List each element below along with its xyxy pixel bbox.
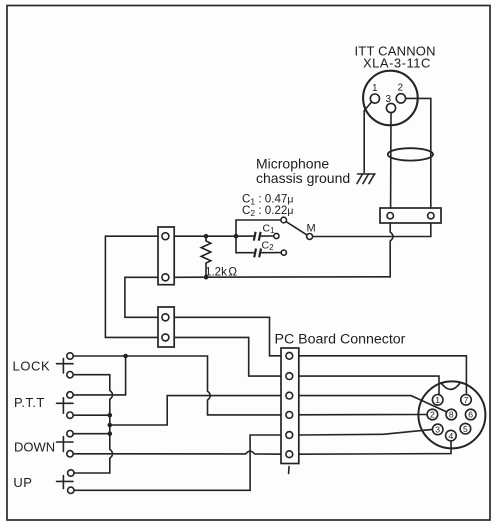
svg-text:3: 3	[435, 425, 440, 435]
wire PC pin5 to DIN pin3	[299, 429, 433, 435]
pin 3 of J1	[386, 94, 396, 113]
selector contact circle (direct position)	[281, 217, 287, 223]
capacitor C1	[236, 232, 274, 241]
chassis connector block	[380, 208, 441, 223]
wire upper block top left loop down to lower block bottom	[105, 236, 158, 337]
junction node at capacitor branch	[234, 234, 239, 239]
upper cord connector block	[158, 227, 174, 285]
PC board connector block	[281, 348, 299, 464]
lower block top pin	[162, 314, 169, 321]
junction node LOCK top / PTT top	[123, 354, 128, 359]
switch DOWN	[57, 431, 74, 457]
lower block bottom pin	[162, 334, 169, 341]
upper block top pin	[162, 233, 169, 240]
wire PC pin3 to DIN pin8	[299, 396, 447, 412]
junction node at resistor bottom	[204, 275, 209, 280]
svg-text:1: 1	[435, 395, 440, 405]
connector J1 XLR body	[363, 71, 418, 126]
DIN keying notch	[441, 382, 461, 389]
DIN pin 3	[432, 424, 443, 435]
PC pin 4	[286, 412, 293, 419]
svg-text:8: 8	[449, 410, 454, 420]
capacitor values label	[242, 193, 293, 218]
wire pin3 down to chassis plug	[390, 113, 392, 208]
chassis block right pin	[428, 213, 434, 219]
DIN pin 2	[427, 409, 438, 420]
wire node up to selector contact	[236, 220, 281, 236]
PC pin 2	[286, 373, 293, 380]
wire upper block bottom pin right	[174, 276, 203, 278]
index tick below PC block	[288, 467, 290, 474]
svg-text:5: 5	[463, 424, 468, 434]
svg-text:3: 3	[386, 94, 392, 105]
wire chassis left pin down (hop over M wire) then left to resistor row	[206, 223, 393, 277]
lower cord connector block	[158, 307, 174, 347]
svg-text:1.2kΩ: 1.2kΩ	[205, 266, 237, 279]
switch M pole circle	[307, 234, 313, 240]
svg-text:chassis ground: chassis ground	[256, 170, 350, 186]
switch PTT	[57, 392, 74, 419]
junction node common branch	[108, 423, 113, 428]
switch M arm	[286, 222, 307, 235]
pin 2 of J1	[396, 83, 405, 104]
svg-text:4: 4	[449, 431, 454, 441]
DIN pin 8	[446, 409, 457, 420]
common vertical (hops over PTT-top and DOWN-bottom rows)	[110, 375, 113, 473]
svg-text:2: 2	[398, 83, 404, 94]
selector contact circle C2	[281, 250, 286, 255]
wire DOWN bottom to PC pin6 (hop over UP vertical)	[73, 451, 281, 454]
svg-text:C2 : 0.22μ: C2 : 0.22μ	[242, 204, 293, 218]
chassis block left pin	[387, 213, 393, 219]
pin 1 of J1	[370, 83, 379, 103]
wire PC pin1 to DIN pin7	[299, 356, 467, 395]
DIN pin 7	[461, 395, 472, 406]
svg-text:UP: UP	[13, 475, 32, 490]
wire common branch to PC pin3	[110, 396, 281, 425]
wire LOCK bottom to common vertical	[73, 374, 110, 376]
wire LOCK top to PC pin4 (down at right, hop over pin3 row)	[73, 356, 281, 415]
upper block bottom pin	[162, 274, 169, 281]
wire upper block bottom left loop down to lower block top	[125, 277, 158, 317]
DIN connector body	[418, 381, 485, 448]
svg-text:1: 1	[372, 83, 378, 94]
junction node DOWN top	[108, 431, 113, 436]
label Microphone chassis ground	[256, 156, 350, 187]
svg-text:6: 6	[468, 410, 473, 420]
wire PTT top contact	[73, 394, 125, 396]
DIN pin 5	[460, 423, 471, 434]
capacitor C2	[236, 236, 281, 257]
microphone chassis ground symbol	[357, 174, 375, 184]
wire lower block bottom pin to PC pin2	[174, 337, 281, 376]
resistor R 1.2k ohm	[201, 239, 211, 276]
PC pin 6	[286, 451, 293, 458]
plug barrel ellipse	[388, 148, 433, 160]
wire UP top contact to common vertical	[74, 472, 110, 474]
junction node at resistor top	[204, 234, 209, 239]
svg-text:XLA-3-11C: XLA-3-11C	[363, 56, 431, 71]
wire PTT bottom contact	[73, 414, 110, 416]
junction node PTT bottom	[108, 413, 113, 418]
switch UP	[57, 470, 75, 494]
svg-text:PC Board Connector: PC Board Connector	[275, 332, 406, 348]
svg-text:DOWN: DOWN	[14, 440, 55, 455]
svg-text:M: M	[307, 223, 316, 235]
wire PC pin4 to DIN pin2	[299, 414, 427, 416]
PC pin 1	[286, 352, 293, 359]
PC pin 5	[286, 432, 293, 439]
wire DOWN top contact	[73, 433, 110, 435]
PC pin 3	[286, 392, 293, 399]
wire pin2 right and down to chassis plug	[406, 98, 431, 208]
svg-text:2: 2	[430, 410, 435, 420]
wire UP bottom to PC pin5	[74, 435, 281, 490]
wire PC pin2 to DIN pin1	[299, 376, 439, 395]
selector contact circle C1	[274, 233, 279, 238]
DIN pin 6	[465, 409, 476, 420]
svg-text:P.T.T: P.T.T	[14, 395, 45, 410]
svg-text:7: 7	[464, 395, 469, 405]
switch LOCK	[57, 353, 74, 378]
wire upper block top pin right to node	[174, 235, 236, 237]
label ITT CANNON XLA-3-11C	[355, 44, 436, 71]
wire junction down to PTT top row	[125, 356, 127, 395]
wire pin1 to chassis ground	[364, 102, 371, 173]
wire lower block top pin to PC pin1	[174, 317, 281, 356]
wire switch M pole to chassis right pin	[313, 223, 431, 237]
DIN pin 1	[432, 395, 443, 406]
svg-text:LOCK: LOCK	[13, 359, 51, 374]
DIN pin 4	[446, 430, 457, 441]
wire PC pin6 to DIN pin4	[299, 441, 451, 454]
